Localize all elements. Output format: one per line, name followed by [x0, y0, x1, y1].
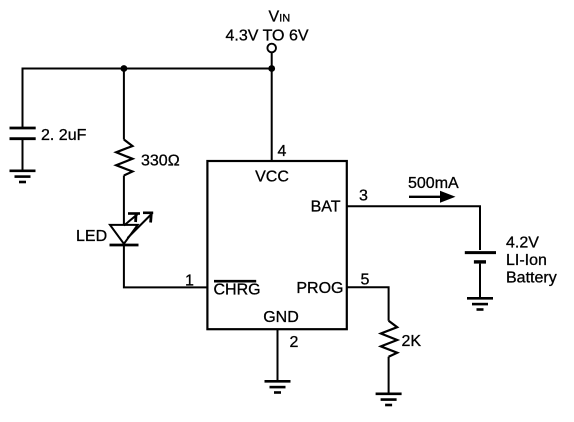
wire resistor R2 to ground	[388, 357, 390, 393]
wire LED to CHRG pin 1	[124, 245, 207, 287]
wire capacitor to ground	[22, 140, 24, 170]
svg-text:2: 2	[290, 334, 299, 351]
svg-text:BAT: BAT	[311, 199, 341, 216]
LED D1 triangle	[110, 225, 138, 244]
svg-text:2K: 2K	[402, 333, 422, 350]
svg-text:CHRG: CHRG	[214, 282, 261, 299]
ground under battery	[467, 298, 493, 309]
LED D1 cathode bar	[110, 244, 139, 247]
svg-text:5: 5	[361, 272, 370, 289]
svg-text:3: 3	[359, 188, 368, 205]
ground under IC	[265, 381, 291, 392]
svg-text:LED: LED	[76, 228, 107, 245]
wire VIN to VCC pin 4	[271, 52, 273, 161]
wire battery to ground	[479, 264, 481, 297]
battery BT1 positive plate	[465, 251, 496, 254]
svg-text:500mA: 500mA	[408, 175, 459, 192]
svg-text:2. 2uF: 2. 2uF	[41, 127, 87, 144]
svg-text:VIN: VIN	[269, 9, 291, 26]
svg-text:4.2V: 4.2V	[506, 235, 539, 252]
svg-text:VCC: VCC	[255, 169, 289, 186]
wire resistor to LED	[123, 176, 125, 225]
U1 CHRG overline	[214, 280, 256, 283]
current arrow 500mA	[409, 191, 456, 203]
wire GND pin 2 to ground	[277, 329, 279, 380]
svg-text:1: 1	[185, 273, 194, 290]
node junction left	[121, 65, 128, 72]
svg-text:LI-Ion: LI-Ion	[506, 252, 547, 269]
svg-text:GND: GND	[263, 309, 299, 326]
LED D1 arrow 2	[128, 213, 154, 238]
svg-text:PROG: PROG	[296, 280, 343, 297]
LED D1 arrow 1	[124, 214, 140, 226]
svg-text:Battery: Battery	[506, 270, 557, 287]
svg-text:4: 4	[278, 143, 287, 160]
node VIN terminal	[267, 44, 276, 53]
wire junction to resistor R1	[123, 69, 125, 140]
resistor R2 2K zigzag	[381, 321, 397, 357]
svg-text:330Ω: 330Ω	[141, 153, 180, 170]
wire top rail	[23, 69, 272, 129]
svg-text:4.3V TO 6V: 4.3V TO 6V	[226, 28, 309, 45]
resistor R1 330ohm zigzag	[116, 140, 132, 176]
battery BT1 negative plate	[474, 260, 486, 263]
wire BAT pin 3 to battery	[347, 206, 480, 250]
capacitor C1 plates	[10, 128, 36, 139]
node junction VIN	[268, 65, 275, 72]
ground under resistor R2	[376, 394, 402, 405]
op-amp U1 IC body	[207, 161, 346, 329]
wire PROG pin 5 to resistor R2	[347, 287, 389, 320]
ground under capacitor	[10, 171, 36, 182]
